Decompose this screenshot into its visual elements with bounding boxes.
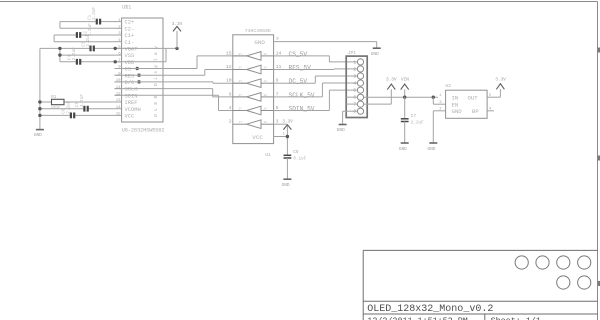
op display U$1 box	[122, 18, 163, 122]
JP1 left stubs pins 6 and 7	[346, 97, 357, 104]
junction VSS branch top	[58, 47, 61, 50]
wire VDD row	[60, 61, 76, 63]
capacitor C4	[77, 59, 80, 65]
wire IREF row	[40, 101, 52, 103]
wire GND rail left	[39, 48, 41, 129]
svg-text:CS_5V: CS_5V	[289, 51, 308, 58]
net labels 5V side	[289, 51, 315, 113]
svg-text:SCLK: SCLK	[125, 87, 139, 93]
svg-text:VCC: VCC	[125, 114, 135, 120]
wire CS_5V to JP1 pin1	[286, 56, 358, 62]
wire VDD rise to 3.3V	[165, 48, 167, 61]
ground C9	[283, 178, 291, 180]
svg-text:2: 2	[353, 66, 356, 72]
junction VDD pin	[114, 60, 117, 63]
buffer gate 5	[233, 110, 247, 112]
regulator U2 box	[446, 90, 488, 118]
capacitor C3	[91, 46, 94, 52]
svg-text:5: 5	[353, 88, 356, 94]
supply VIN at JP1 pin6 net	[404, 89, 406, 97]
wire VSS to GND branch vertical	[59, 48, 61, 61]
svg-text:C7: C7	[411, 114, 417, 119]
wire C9 to ground	[286, 158, 288, 179]
svg-text:DC_5V: DC_5V	[289, 78, 308, 85]
supply 3.3V at U2 OUT	[496, 84, 504, 90]
svg-text:C9: C9	[293, 150, 299, 155]
svg-text:C2-: C2-	[125, 26, 135, 32]
junction rail IREF	[38, 100, 41, 103]
JP1 pin circles	[357, 59, 363, 114]
svg-text:6: 6	[229, 91, 232, 97]
svg-text:RES: RES	[125, 73, 135, 79]
ground C7	[401, 142, 409, 144]
capacitor C1	[97, 19, 100, 25]
svg-text:5Y: 5Y	[239, 67, 243, 70]
junction U1 VCC	[286, 135, 289, 138]
svg-text:SDIN: SDIN	[125, 93, 138, 99]
U2 pin names	[452, 94, 480, 115]
svg-text:3.3V: 3.3V	[495, 77, 506, 82]
title block mounting hole circles	[515, 256, 591, 289]
U1 buffer gate rows	[233, 52, 274, 129]
svg-text:11: 11	[116, 86, 121, 90]
wire C2+ row	[60, 21, 96, 23]
svg-text:560K: 560K	[51, 107, 61, 111]
svg-text:IREF: IREF	[125, 100, 138, 106]
wire SCLK_5V to JP1 pin4	[286, 83, 358, 97]
wire C1 loop vertical	[53, 35, 55, 42]
ground U1 GND	[373, 47, 381, 49]
svg-text:0.1uF: 0.1uF	[293, 157, 306, 162]
svg-text:VSS: VSS	[125, 53, 135, 59]
svg-text:6A: 6A	[264, 53, 268, 56]
svg-text:SDIN_5V: SDIN_5V	[289, 106, 315, 113]
wire C1+ row	[54, 34, 76, 36]
svg-text:2.2uF: 2.2uF	[72, 47, 77, 60]
svg-text:GND: GND	[399, 147, 407, 152]
junction VBAT 3.3V	[175, 47, 178, 50]
svg-text:3: 3	[353, 74, 356, 80]
svg-text:13: 13	[116, 99, 121, 103]
svg-text:D/C: D/C	[125, 80, 135, 86]
U1 gate pin tiny labels	[239, 53, 268, 124]
svg-text:OLED_128x32_Mono_v0.2: OLED_128x32_Mono_v0.2	[367, 304, 493, 315]
U1 left pin numbers	[226, 51, 232, 125]
svg-text:GND: GND	[452, 108, 463, 115]
svg-text:C2+: C2+	[125, 20, 135, 26]
wire D/C# row to buffer	[115, 82, 247, 83]
junction rail VCC	[38, 114, 41, 117]
capacitor C2	[77, 32, 80, 38]
supply 3.3V at OLED	[176, 31, 178, 48]
svg-text:JP1: JP1	[348, 50, 357, 56]
buffer gate 2	[233, 69, 247, 71]
svg-text:VCOMH: VCOMH	[125, 107, 141, 113]
wire VSS row	[60, 54, 115, 56]
svg-text:2.2uF: 2.2uF	[411, 121, 424, 126]
supply 3.3V at U1 VCC	[283, 125, 291, 130]
svg-text:74HC4050D: 74HC4050D	[245, 28, 271, 34]
svg-text:VDD: VDD	[125, 60, 135, 66]
junction VIN	[403, 96, 406, 99]
svg-text:3A: 3A	[264, 94, 268, 97]
wire C2- row	[60, 27, 115, 29]
svg-text:4Y: 4Y	[239, 80, 243, 83]
svg-text:C1+: C1+	[125, 33, 135, 39]
JP1 right side stubs for pins 6,7	[364, 97, 438, 104]
svg-text:OLED Display: OLED Display	[153, 43, 159, 117]
svg-text:U2: U2	[445, 83, 451, 89]
connector JP1 box	[346, 56, 367, 117]
wire EN branch	[433, 97, 445, 104]
wire CS# row to buffer	[115, 56, 247, 69]
frame top border	[0, 1, 598, 3]
svg-text:OUT: OUT	[468, 94, 479, 101]
title block border	[363, 250, 597, 320]
U$1 pin numbers	[116, 19, 121, 117]
wire RES_5V to JP1 pin2	[286, 68, 358, 71]
svg-text:GND: GND	[34, 133, 42, 138]
svg-text:5A: 5A	[264, 67, 268, 70]
buffer gate 1	[233, 55, 247, 57]
U2 pin numbers	[439, 94, 492, 112]
svg-text:1: 1	[353, 59, 356, 65]
frame tick mark top right	[598, 48, 600, 53]
svg-text:GND: GND	[282, 183, 290, 188]
svg-text:12: 12	[116, 93, 121, 97]
svg-text:4A: 4A	[264, 80, 268, 83]
frame tick mark mid right	[598, 281, 600, 286]
JP1 pin numbers	[353, 59, 356, 114]
wire VCOMH row	[40, 108, 84, 110]
svg-text:Sheet: 1/1: Sheet: 1/1	[491, 316, 541, 320]
svg-text:3.3V: 3.3V	[386, 77, 397, 82]
junction VBAT pin	[114, 47, 117, 50]
svg-text:6Y: 6Y	[239, 53, 243, 56]
capacitor C5	[84, 106, 87, 112]
U2 BP stub	[487, 110, 494, 112]
svg-text:BP: BP	[472, 108, 479, 115]
junction VSS branch	[58, 53, 61, 56]
wire VCC row	[40, 114, 70, 116]
wire U1 GND pin to ground	[274, 42, 377, 48]
wire regulator GND pin to ground	[433, 111, 445, 143]
svg-text:U$1: U$1	[122, 5, 131, 11]
svg-text:3Y: 3Y	[239, 94, 243, 97]
svg-text:GND: GND	[428, 147, 436, 152]
wire U1 VCC pin to 3.3V	[274, 124, 288, 155]
JP1 pin8 wire to ground	[343, 111, 358, 124]
wire VBAT row	[40, 47, 90, 49]
buffer gate 3	[233, 82, 247, 84]
wire C2 loop vertical	[59, 22, 61, 29]
svg-text:14: 14	[116, 106, 121, 110]
capacitor C9	[284, 155, 292, 158]
svg-text:15: 15	[226, 51, 232, 57]
wire SDIN_5V to JP1 pin5	[286, 90, 358, 110]
ground regulator	[429, 142, 437, 144]
U1 right pin numbers	[276, 51, 282, 125]
wire C1- row	[54, 41, 114, 43]
U$1 pin names	[125, 20, 141, 120]
svg-text:RES_5V: RES_5V	[289, 65, 312, 72]
svg-text:VCC: VCC	[252, 134, 263, 141]
svg-text:3.3V: 3.3V	[172, 22, 183, 27]
buffer U1 box	[233, 35, 274, 144]
svg-text:UG-2832HSWEG02: UG-2832HSWEG02	[122, 128, 165, 134]
buffer gate 6	[233, 123, 247, 125]
svg-text:VIN: VIN	[401, 77, 409, 82]
wire C7 to ground	[404, 122, 406, 143]
U$1 pin stubs	[115, 22, 122, 116]
svg-text:C1-: C1-	[125, 40, 135, 46]
U2 OUT pin wire	[487, 89, 500, 97]
U1 right stubs	[274, 56, 288, 124]
svg-text:GND: GND	[337, 128, 345, 133]
ground left rail	[36, 129, 44, 131]
svg-text:2.2uF: 2.2uF	[86, 33, 91, 46]
svg-text:2A: 2A	[264, 108, 268, 111]
svg-text:1Y: 1Y	[239, 121, 243, 124]
svg-text:VBAT: VBAT	[125, 47, 139, 53]
svg-text:2.2uF: 2.2uF	[92, 7, 97, 20]
svg-text:SCLK_5V: SCLK_5V	[289, 92, 315, 99]
svg-text:12/2/2011 1:51:52 PM: 12/2/2011 1:51:52 PM	[367, 316, 468, 320]
svg-text:CS: CS	[125, 67, 131, 73]
frame right border	[597, 2, 599, 320]
svg-text:12: 12	[226, 64, 232, 70]
capacitor C7	[404, 97, 406, 118]
wire SDIN row to buffer	[115, 95, 247, 110]
junction rail VCOMH	[38, 107, 41, 110]
svg-text:R1: R1	[51, 96, 57, 100]
svg-text:10: 10	[226, 78, 232, 84]
svg-text:15: 15	[116, 113, 121, 117]
svg-text:2Y: 2Y	[239, 108, 243, 111]
junction regulator EN branch	[432, 96, 435, 99]
hash blobs after CS RES D/C names	[136, 67, 141, 84]
wire DC_5V to JP1 pin3	[286, 76, 358, 83]
svg-text:GND: GND	[371, 52, 379, 57]
supply 3.3V at JP1 pin7	[390, 89, 392, 104]
svg-text:4.7uF: 4.7uF	[80, 94, 85, 107]
ground JP1 pin8	[339, 124, 347, 126]
svg-text:10: 10	[116, 79, 121, 83]
wire SCLK row to buffer	[115, 89, 247, 97]
frame tick mark right centre	[598, 156, 600, 161]
wire RES# row to buffer	[115, 70, 247, 76]
capacitor C6	[71, 113, 74, 119]
buffer gate 4	[233, 96, 247, 98]
resistor R1	[52, 99, 65, 104]
svg-text:GND: GND	[254, 39, 265, 46]
svg-text:2: 2	[229, 119, 232, 125]
svg-text:U1: U1	[265, 152, 271, 158]
svg-text:1A: 1A	[264, 121, 268, 124]
svg-text:4: 4	[229, 105, 232, 111]
svg-text:4: 4	[353, 81, 356, 87]
svg-text:2.2uF: 2.2uF	[66, 100, 71, 113]
